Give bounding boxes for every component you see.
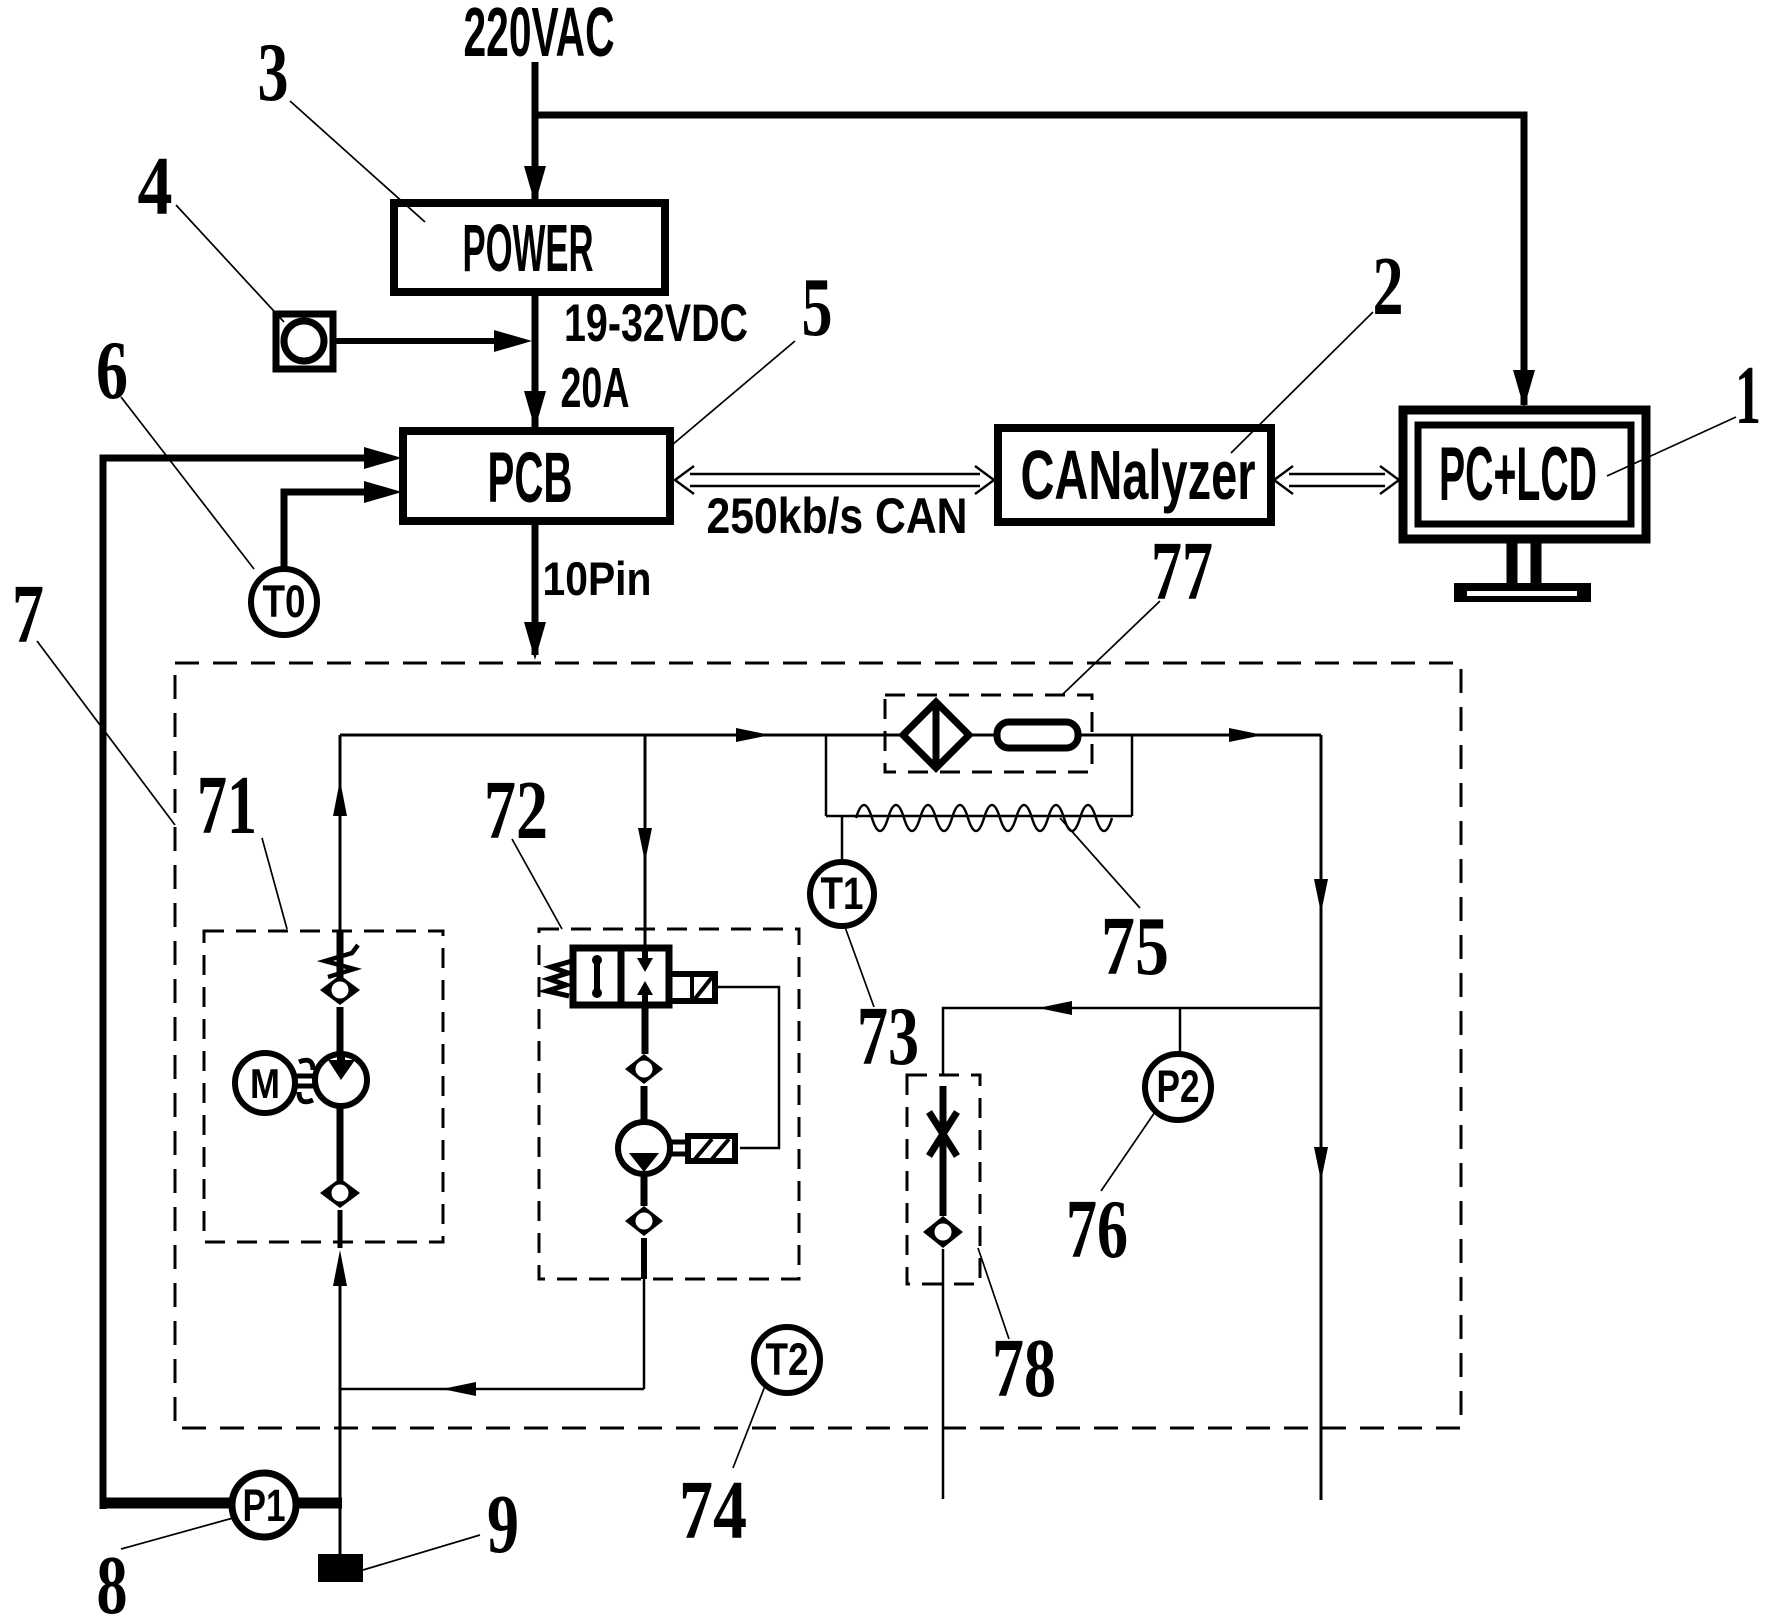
svg-text:T0: T0 (263, 576, 306, 627)
wire P1 elbow to riser (100, 1498, 107, 1509)
temperature sensor T0 (251, 569, 317, 635)
svg-text:5: 5 (802, 261, 833, 354)
leader 74 (733, 1386, 765, 1468)
check valve ball (upper, 71) (320, 975, 360, 1005)
leader 71 (262, 838, 287, 929)
leader 3 (290, 101, 425, 222)
arrow 10Pin down (524, 622, 546, 660)
svg-text:6: 6 (96, 324, 128, 417)
check valve ball (upper, 72) (625, 1054, 663, 1084)
leader 72 (512, 839, 562, 929)
right cell: arrows (642, 948, 648, 962)
arrow down into PC+LCD (1513, 370, 1535, 408)
needle valve (929, 1086, 957, 1216)
leader 2 (1231, 312, 1373, 453)
wire meter to check (641, 1174, 648, 1206)
svg-text:75: 75 (1101, 900, 1169, 993)
temperature sensor T1 (810, 816, 874, 926)
motor M (235, 1053, 295, 1113)
svg-text:72: 72 (484, 764, 548, 857)
arrow into PCB lower left (364, 481, 402, 503)
wire to box bottom (338, 1210, 343, 1248)
wire check to meter (641, 1086, 648, 1124)
solenoid actuator box (669, 974, 715, 1001)
displacement actuator box (670, 1136, 735, 1161)
svg-text:73: 73 (857, 990, 919, 1083)
wire down out of box 72 (641, 1238, 647, 1279)
wire valve to check (642, 1005, 649, 1054)
filter diamond (903, 702, 969, 768)
wire pump down (337, 1106, 344, 1180)
wire valve feed riser (644, 735, 647, 948)
power supply POWER box (3) (394, 203, 665, 292)
svg-text:POWER: POWER (463, 211, 594, 286)
leader 1 (1607, 417, 1736, 476)
leader 8 (121, 1518, 233, 1549)
coupling shaft (295, 1060, 316, 1102)
wire return branch to 78 (943, 1008, 1321, 1075)
tank plug (9) (318, 1554, 363, 1582)
arrow down on valve riser (638, 828, 652, 862)
pressure sensor P2 (1145, 1008, 1211, 1120)
arrow right on manifold (right of filter) (1229, 728, 1263, 742)
check valve ball (lower, 71) (320, 1178, 360, 1208)
leader 73 (845, 927, 874, 1007)
svg-text:8: 8 (97, 1539, 128, 1624)
svg-text:PC+LCD: PC+LCD (1439, 432, 1597, 517)
svg-text:4: 4 (138, 140, 173, 233)
svg-text:10Pin: 10Pin (543, 552, 652, 605)
check valve ball (lower, 72) (625, 1206, 663, 1236)
leader 75 (1060, 818, 1140, 908)
svg-text:T2: T2 (766, 1334, 809, 1385)
leader 77 (1063, 601, 1160, 694)
element pill (997, 722, 1078, 748)
solenoid valve body (547, 948, 715, 1005)
wire right downcomer (1320, 735, 1323, 1500)
arrow up below box 71 (333, 1250, 347, 1286)
check valve ball (78) (923, 1216, 963, 1248)
arrow down into POWER (524, 166, 546, 204)
svg-text:19-32VDC: 19-32VDC (564, 294, 748, 353)
svg-text:250kb/s CAN: 250kb/s CAN (707, 488, 968, 544)
wire riser to tank (339, 1507, 342, 1556)
spring on left (547, 961, 572, 996)
svg-text:7: 7 (12, 568, 44, 661)
arrow into PCB upper left (364, 447, 402, 469)
svg-text:74: 74 (679, 1464, 747, 1557)
svg-text:1: 1 (1735, 349, 1761, 442)
arrow down into PCB (20A) (524, 391, 546, 429)
wire POWER to PCB (532, 292, 539, 428)
svg-text:9: 9 (487, 1478, 519, 1571)
wire 220VAC vertical into POWER (532, 62, 539, 205)
arrow left on return (442, 1382, 476, 1396)
wire left riser (pump branch) (339, 735, 342, 931)
svg-text:2: 2 (1373, 240, 1404, 333)
svg-text:76: 76 (1066, 1183, 1128, 1276)
arrow right on manifold (left of filter) (736, 728, 770, 742)
temperature sensor T2 (754, 1327, 820, 1393)
wire T0 sensor to PCB (284, 492, 390, 570)
leader 7 (37, 641, 175, 825)
host computer PC+LCD monitor (1) (1403, 410, 1646, 602)
svg-text:78: 78 (992, 1322, 1056, 1415)
wire 78 down (942, 1249, 945, 1499)
leader 76 (1101, 1112, 1155, 1191)
leader 5 (672, 341, 795, 445)
svg-text:CANalyzer: CANalyzer (1021, 436, 1256, 514)
leader 9 (363, 1535, 480, 1570)
arrow up on left riser (333, 780, 347, 816)
svg-text:220VAC: 220VAC (464, 0, 615, 71)
enclosure dashed box (175, 663, 1461, 1428)
svg-text:77: 77 (1151, 525, 1213, 618)
wire return to left riser (340, 1388, 644, 1391)
svg-text:PCB: PCB (488, 439, 573, 518)
CAN bus double arrow PCB-CANalyzer (675, 466, 994, 494)
pump 71 (315, 1054, 367, 1106)
controller PCB box (5) (403, 431, 670, 521)
svg-text:M: M (250, 1060, 280, 1107)
wire spring to pump (337, 1007, 344, 1056)
metering pump 72 (618, 1122, 670, 1174)
relief spring symbol (337, 931, 344, 979)
arrow down on right downcomer (lower) (1314, 1147, 1328, 1181)
wire riser down to P1 junction (339, 1278, 342, 1507)
heater wavy element (856, 805, 1112, 831)
left cell: blocked port symbol (594, 958, 600, 995)
arrow down on right downcomer (upper) (1314, 879, 1328, 913)
CAN interface CANalyzer box (2) (998, 428, 1271, 522)
wire branch 220VAC to monitor (top right) (535, 115, 1524, 405)
wire top manifold (340, 734, 1321, 737)
pressure sensor P1 (232, 1473, 296, 1537)
svg-text:P2: P2 (1157, 1061, 1200, 1112)
svg-text:P1: P1 (243, 1480, 286, 1531)
svg-text:20A: 20A (561, 356, 630, 420)
CAN bus double arrow CANalyzer-PC (1274, 466, 1399, 494)
wire left feedback line into PCB (from 8/P1 branch) (103, 458, 390, 1503)
svg-text:3: 3 (258, 26, 289, 119)
leader 6 (121, 397, 254, 569)
emergency stop switch (4): square with circle (276, 314, 333, 369)
svg-text:71: 71 (197, 759, 257, 852)
monitor stand (1507, 539, 1518, 583)
wire P1 to riser (294, 1498, 342, 1509)
wire switch to power line (333, 338, 520, 344)
wire PCB 10Pin harness down (532, 521, 539, 655)
leader 4 (176, 205, 284, 322)
arrow right into power line (494, 330, 532, 352)
pilot wire from solenoid (715, 987, 779, 1148)
svg-text:T1: T1 (821, 868, 864, 919)
leader 78 (978, 1248, 1009, 1339)
arrow left on return branch (1038, 1001, 1072, 1015)
